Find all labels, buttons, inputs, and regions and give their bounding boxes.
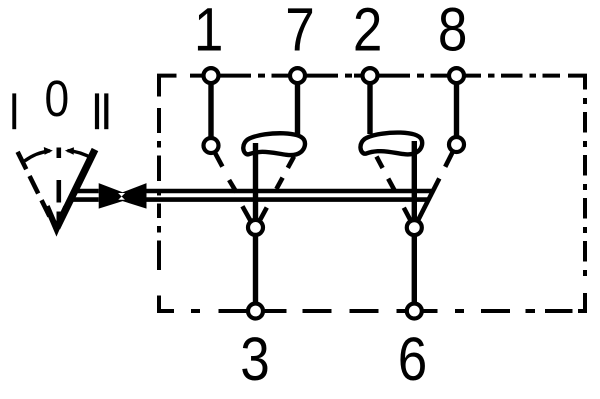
coupling bowtie white notch upper <box>118 193 125 197</box>
svg-text:6: 6 <box>398 326 428 394</box>
terminal 8 circle <box>449 68 464 83</box>
terminal 6 circle <box>407 304 422 319</box>
travel line contact8 to mover6 (position II engaged) <box>418 153 452 220</box>
mover wire terminal 6 lower <box>412 235 417 303</box>
svg-text:3: 3 <box>240 326 270 394</box>
svg-text:2: 2 <box>353 0 383 64</box>
travel arc right arrow <box>65 147 74 155</box>
terminal 7 circle <box>290 68 305 83</box>
svg-text:7: 7 <box>285 0 315 64</box>
lever position II (solid) <box>57 150 95 228</box>
dashed travel line bridge7 to mover3 <box>260 157 294 220</box>
terminal 3 circle <box>248 304 263 319</box>
coupling bowtie backing <box>99 186 147 204</box>
mover wire terminal 3 lower <box>253 235 258 303</box>
mover wire terminal 3 upper <box>253 143 258 220</box>
travel arc left arrow <box>44 147 53 155</box>
moving contact circle pole 6 <box>407 220 422 235</box>
coupling bowtie body <box>99 183 147 209</box>
wire stub terminal 1 <box>208 83 213 137</box>
label position II <box>95 93 99 129</box>
mover wire terminal 6 upper <box>412 141 417 220</box>
lever arrow head <box>47 206 66 229</box>
dashed travel line bridge2 to mover6 <box>377 157 411 220</box>
svg-text:0: 0 <box>45 71 70 128</box>
switch body outline top edge (dash-dot) <box>159 76 585 97</box>
coupling bowtie white notch lower <box>118 197 125 200</box>
switch body outline right edge (dash-dot) <box>583 98 587 276</box>
lever position 0 (dashed) <box>56 148 61 159</box>
actuator bar upper line <box>75 189 433 194</box>
wire stub terminal 8 <box>454 83 459 136</box>
switch body outline bottom edge (dash-dot) <box>159 293 585 311</box>
svg-text:1: 1 <box>194 0 224 64</box>
lever position I (dashed) <box>18 152 50 217</box>
actuator bar lower line <box>71 197 429 202</box>
moving contact circle pole 3 <box>248 220 263 235</box>
wire stub terminal 7 <box>295 83 300 135</box>
label position I <box>12 93 16 129</box>
bridge contact under terminal 2 <box>360 133 422 155</box>
switch body outline left edge (dash-dot) <box>157 108 161 311</box>
fixed contact circle under terminal 1 <box>204 138 219 153</box>
bridge contact under terminal 7 <box>243 133 305 155</box>
travel arc left half <box>25 151 51 161</box>
terminal 2 circle <box>363 68 378 83</box>
wire stub terminal 2 <box>367 83 372 134</box>
fixed contact circle under terminal 8 <box>449 137 464 152</box>
dashed travel line contact1 to mover3 <box>215 153 251 222</box>
terminal 1 circle <box>204 68 219 83</box>
svg-text:8: 8 <box>438 0 468 64</box>
travel arc right half <box>68 151 93 159</box>
